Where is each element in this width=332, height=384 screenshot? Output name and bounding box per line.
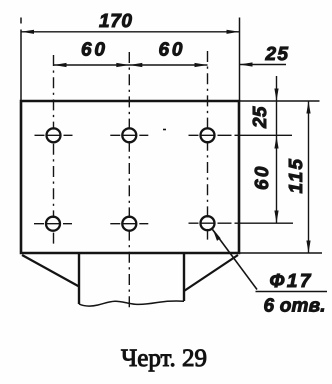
svg-text:170: 170: [99, 11, 132, 32]
vertical dimension line 25/60: [276, 76, 278, 224]
hole A2: [122, 128, 136, 142]
right chamfer: [184, 255, 238, 291]
stray centerline dot: [163, 129, 166, 131]
dimension 60 left line: [54, 64, 208, 66]
centerline masks inside holes: [51, 130, 209, 230]
column centerline 2: [128, 52, 130, 310]
svg-text:60: 60: [81, 39, 105, 60]
bottom edge extension right: [239, 252, 322, 254]
row 1 centerline extension: [189, 134, 293, 136]
svg-text:Черт. 29: Черт. 29: [121, 345, 207, 372]
hole A1: [47, 128, 61, 142]
hole A3: [201, 128, 215, 142]
right extension line: [239, 18, 241, 102]
dimension 170 line: [21, 31, 240, 33]
leader line to hole B3: [213, 230, 258, 290]
support left edge: [78, 253, 80, 304]
hole B3: [201, 216, 215, 230]
break line: [79, 301, 184, 306]
svg-text:115: 115: [286, 159, 307, 194]
plate outline: [21, 101, 239, 253]
svg-text:Ф17: Ф17: [270, 271, 312, 292]
support right edge: [183, 253, 185, 301]
column centerline 3: [207, 51, 209, 244]
left chamfer: [22, 255, 79, 287]
svg-text:25: 25: [250, 106, 271, 129]
hole B2: [122, 217, 136, 231]
left extension line: [20, 18, 22, 102]
column centerline 1: [53, 55, 55, 244]
svg-text:25: 25: [265, 44, 289, 65]
hole B1: [46, 217, 60, 231]
top edge extension right: [239, 100, 320, 102]
dimension 115 line: [308, 101, 310, 253]
row 2 centerline extension: [189, 222, 294, 224]
svg-text:6 отв.: 6 отв.: [264, 296, 326, 317]
svg-text:60: 60: [252, 166, 273, 190]
dimension 25 top tail: [240, 64, 287, 66]
svg-text:60: 60: [159, 39, 183, 60]
